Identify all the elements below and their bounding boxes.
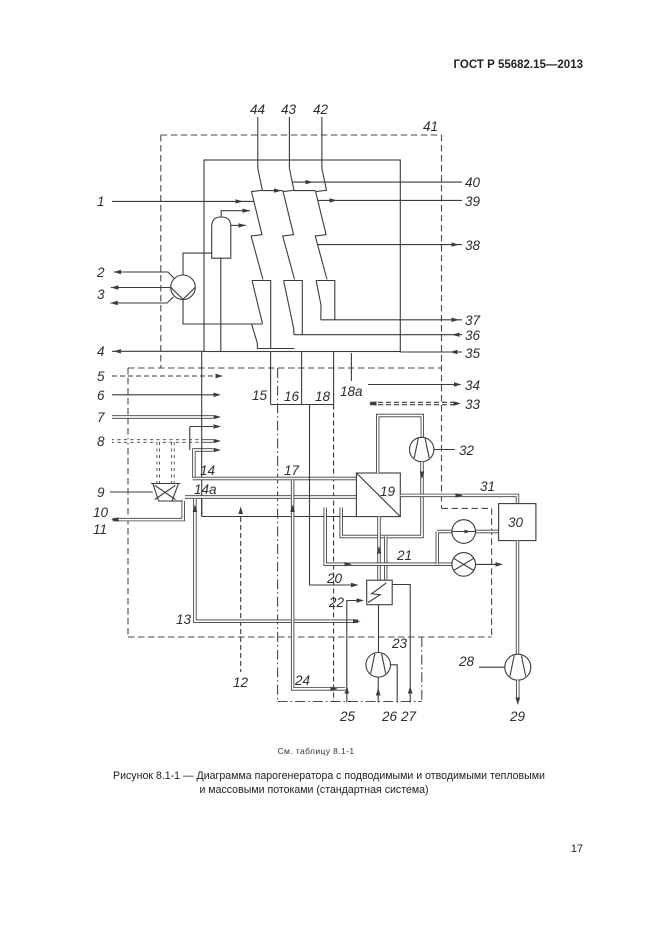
svg-text:21: 21 bbox=[396, 548, 412, 563]
wire 39 bbox=[318, 198, 462, 202]
heating surface (from 44) bbox=[251, 117, 294, 349]
svg-text:13: 13 bbox=[176, 612, 192, 627]
node labels middle bbox=[176, 384, 526, 724]
wire 6 bbox=[112, 393, 221, 397]
svg-text:24: 24 bbox=[294, 673, 310, 688]
chain boundary (dash-dot) bbox=[278, 368, 422, 702]
wire link surface1-surface2 bbox=[262, 188, 283, 192]
wire 14 return arm bbox=[194, 448, 221, 479]
wire to HX22 top (double) bbox=[384, 537, 387, 581]
wire 1 bbox=[112, 199, 254, 203]
node 18a stub bbox=[350, 353, 352, 381]
wire 36 bbox=[294, 333, 462, 337]
drum bbox=[212, 217, 231, 258]
wire 5 (dashed) bbox=[112, 374, 223, 378]
svg-text:3: 3 bbox=[97, 287, 105, 302]
svg-text:35: 35 bbox=[465, 346, 481, 361]
svg-text:37: 37 bbox=[465, 313, 481, 328]
svg-text:28: 28 bbox=[458, 654, 475, 669]
svg-text:10: 10 bbox=[93, 505, 109, 520]
heat exchanger 22 bbox=[367, 580, 393, 605]
svg-text:39: 39 bbox=[465, 194, 481, 209]
page number bbox=[562, 843, 592, 855]
wire 21 (double) bbox=[325, 508, 452, 567]
feed pump bbox=[171, 275, 196, 300]
header bbox=[383, 59, 583, 71]
wire 8 (double dashed) bbox=[112, 439, 221, 443]
wire 29 out bbox=[516, 680, 521, 705]
svg-text:18a: 18a bbox=[340, 384, 363, 399]
wire 14a (double) bbox=[185, 495, 356, 498]
boundary B (water-steam dashed box) bbox=[128, 368, 492, 637]
wire 3 bbox=[111, 285, 171, 289]
svg-text:17: 17 bbox=[284, 463, 300, 478]
wire 13 (double, down and right) bbox=[193, 499, 361, 624]
wire hopper line to 19 bbox=[202, 516, 357, 518]
svg-text:20: 20 bbox=[326, 571, 343, 586]
svg-text:44: 44 bbox=[250, 102, 265, 117]
wire pump 32 down leg (double) bbox=[341, 462, 424, 537]
hopper outlets 15 16 18 bbox=[271, 352, 334, 405]
svg-text:11: 11 bbox=[93, 522, 107, 537]
pump 28 bbox=[505, 654, 531, 680]
svg-text:2: 2 bbox=[96, 265, 105, 280]
wire 27 bbox=[392, 585, 412, 703]
boundary 41 (boiler dashed box) bbox=[161, 135, 492, 637]
wire mixer outlet bbox=[172, 500, 183, 502]
svg-text:9: 9 bbox=[97, 485, 105, 500]
svg-text:18: 18 bbox=[315, 389, 331, 404]
wire HX22 to pump 23 bbox=[378, 605, 380, 653]
wire 38 bbox=[318, 242, 463, 246]
svg-text:23: 23 bbox=[391, 636, 408, 651]
valve circle A bbox=[437, 520, 498, 565]
pump 32 bbox=[410, 437, 434, 461]
wire bracket into boiler bbox=[190, 424, 221, 450]
wire 2 bbox=[114, 270, 175, 279]
footer small note bbox=[116, 746, 516, 756]
svg-text:40: 40 bbox=[465, 175, 481, 190]
svg-text:12: 12 bbox=[233, 675, 249, 690]
svg-text:26: 26 bbox=[381, 709, 398, 724]
svg-text:42: 42 bbox=[313, 102, 329, 117]
svg-text:27: 27 bbox=[400, 709, 417, 724]
svg-text:22: 22 bbox=[328, 595, 345, 610]
svg-text:34: 34 bbox=[465, 378, 480, 393]
wire drum top to surface1 bbox=[221, 209, 250, 218]
svg-text:14: 14 bbox=[200, 463, 215, 478]
tank 30 bbox=[499, 504, 536, 541]
svg-text:7: 7 bbox=[97, 410, 105, 425]
valve circle B bbox=[452, 553, 503, 577]
wire 35 bbox=[400, 350, 462, 354]
node labels left column bbox=[93, 194, 109, 537]
wire 28 leader bbox=[479, 666, 505, 668]
heating surface (from 42) bbox=[315, 117, 335, 320]
wire 9 bbox=[110, 491, 153, 493]
wire up to 14a bbox=[201, 497, 203, 516]
wire 10/11 pipe bbox=[111, 501, 183, 522]
svg-text:33: 33 bbox=[465, 397, 481, 412]
wire 37 bbox=[321, 318, 462, 322]
wire 4 bbox=[112, 349, 204, 353]
svg-text:6: 6 bbox=[97, 388, 105, 403]
wire 40 bbox=[293, 180, 463, 184]
caption bbox=[64, 770, 594, 782]
wire 30 to pump 28 (double) bbox=[516, 541, 519, 655]
svg-text:4: 4 bbox=[97, 344, 105, 359]
wire 22/25 riser bbox=[345, 598, 365, 702]
svg-text:43: 43 bbox=[281, 102, 297, 117]
svg-text:31: 31 bbox=[480, 479, 495, 494]
wire drum to feed pump bbox=[183, 253, 212, 275]
wire 34 bbox=[368, 382, 462, 386]
svg-text:29: 29 bbox=[509, 709, 526, 724]
wire drum right to surface1 bbox=[231, 223, 246, 227]
svg-text:8: 8 bbox=[97, 434, 105, 449]
svg-text:30: 30 bbox=[508, 515, 524, 530]
node labels right column bbox=[459, 175, 495, 494]
wire 26 into pump bbox=[376, 677, 381, 702]
svg-text:15: 15 bbox=[252, 388, 268, 403]
wire 3a bbox=[110, 297, 173, 305]
pump 32 loop upper (double) bbox=[378, 416, 423, 474]
wire HX22 to 19 (double) bbox=[377, 517, 382, 581]
svg-text:36: 36 bbox=[465, 328, 481, 343]
svg-text:1: 1 bbox=[97, 194, 105, 209]
pump 23 bbox=[366, 653, 391, 678]
mixer 9 bbox=[151, 484, 181, 502]
wire 8 branches to mixer bbox=[158, 442, 173, 484]
wire link surface2-surface3 bbox=[294, 190, 316, 192]
svg-text:5: 5 bbox=[97, 369, 105, 384]
svg-text:32: 32 bbox=[459, 443, 475, 458]
wire furnace outlet down bbox=[201, 352, 203, 517]
heat exchanger 19 bbox=[356, 473, 400, 517]
node labels top bbox=[250, 102, 438, 134]
heating surface (from 43) bbox=[283, 117, 303, 335]
wire 33 (double dashed) bbox=[369, 401, 461, 405]
svg-text:19: 19 bbox=[380, 484, 396, 499]
wire 31 (double) bbox=[400, 493, 517, 503]
wire pump 23 discharge bbox=[391, 665, 398, 703]
wire drum downcomer bbox=[220, 258, 222, 351]
svg-text:14a: 14a bbox=[194, 482, 217, 497]
svg-text:25: 25 bbox=[339, 709, 356, 724]
svg-text:16: 16 bbox=[284, 389, 300, 404]
wire 32 leader bbox=[434, 449, 455, 451]
wire 7 (double) bbox=[112, 415, 221, 419]
wire from hopper 18 down (dashed) bbox=[333, 405, 335, 702]
wire 14 (double) bbox=[193, 477, 357, 480]
svg-text:38: 38 bbox=[465, 238, 481, 253]
wire 17/24 riser (double) bbox=[290, 480, 345, 691]
wire 20 from hopper to HX22 bbox=[310, 405, 359, 588]
svg-text:41: 41 bbox=[423, 119, 438, 134]
wire riser pump to surface1 bbox=[183, 300, 263, 324]
furnace box bbox=[204, 160, 400, 352]
node 12 dashed leader bbox=[238, 507, 243, 673]
